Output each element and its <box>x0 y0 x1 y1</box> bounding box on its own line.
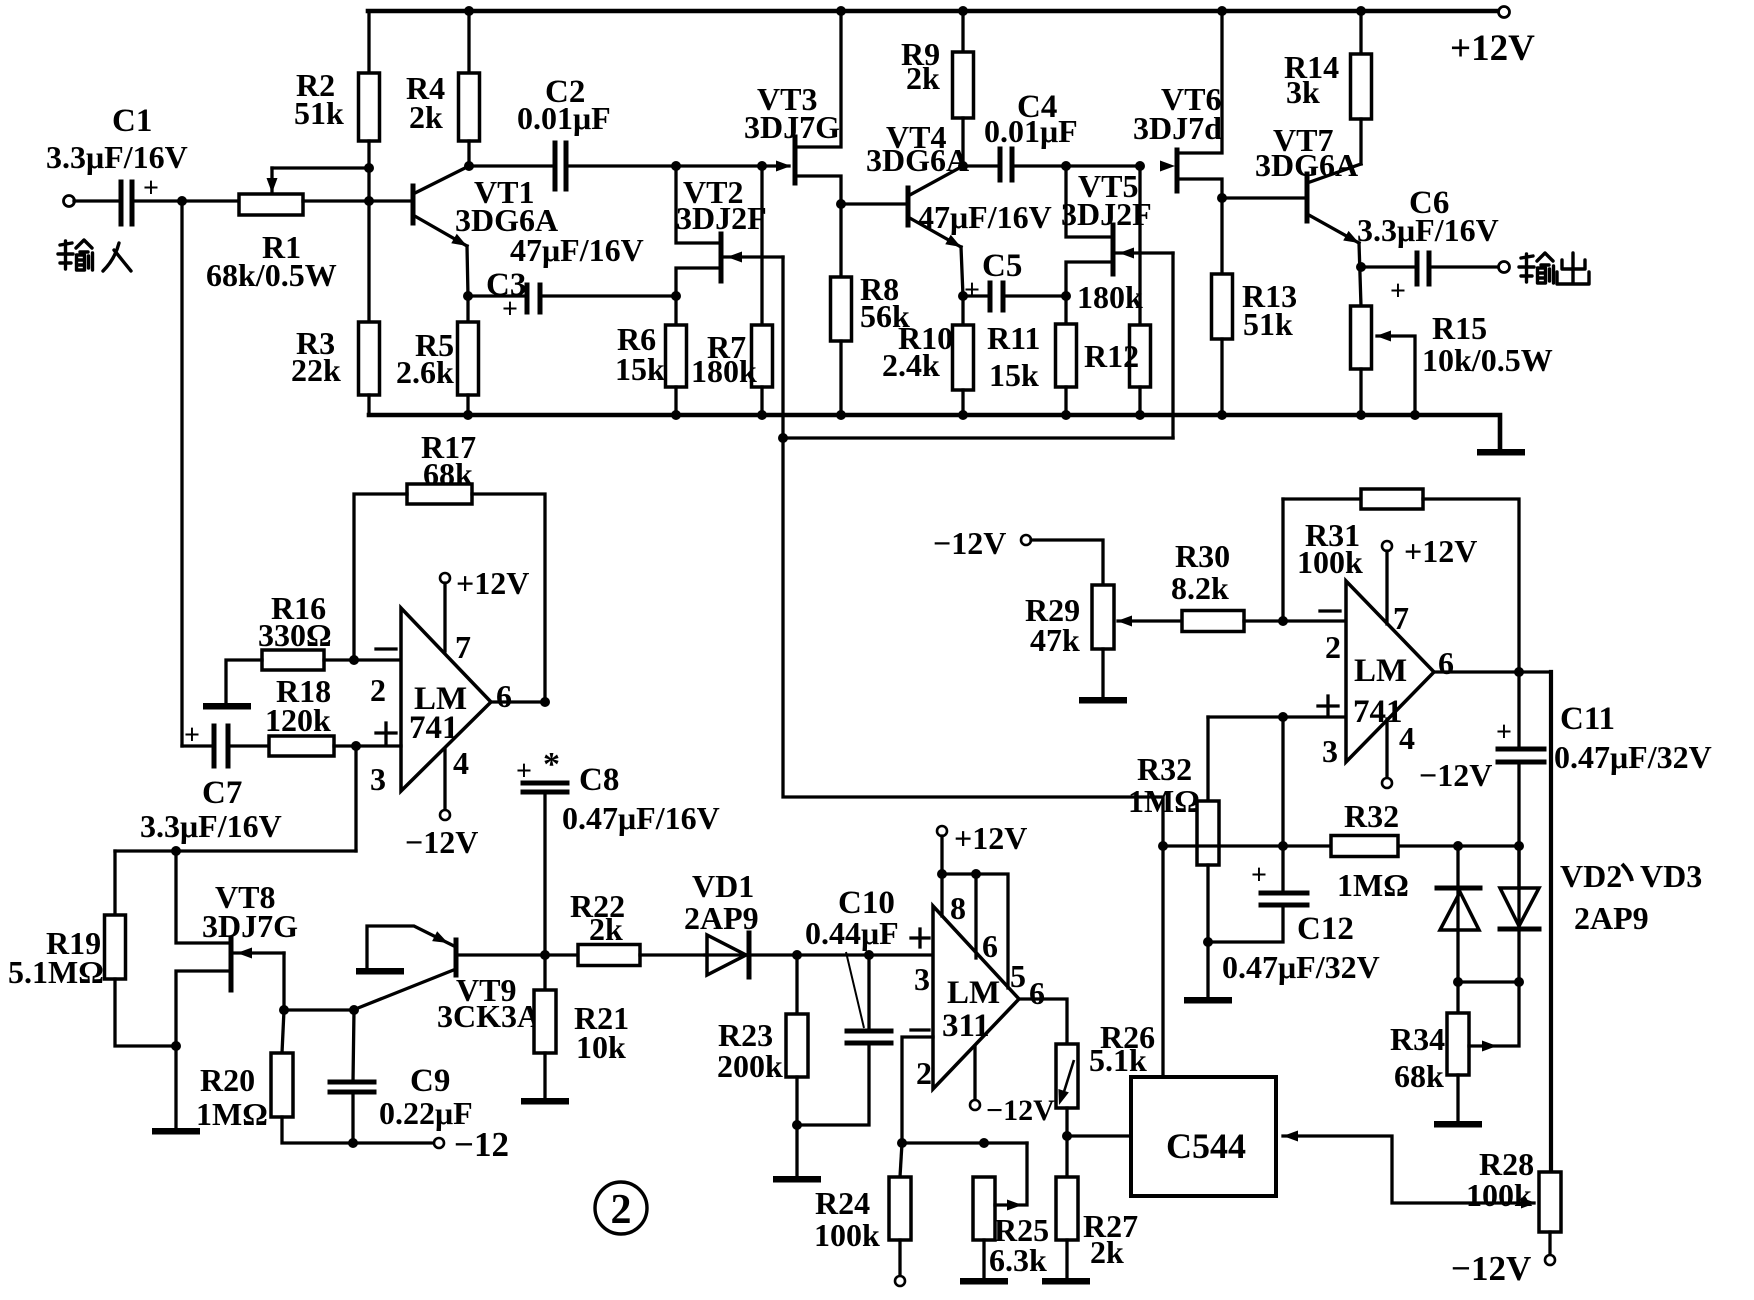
svg-text:2k: 2k <box>906 60 940 96</box>
svg-text:68k: 68k <box>423 456 473 492</box>
wire to VT7 base <box>1222 196 1307 199</box>
capacitor C9 <box>353 1010 354 1082</box>
svg-text:R15: R15 <box>1432 310 1487 346</box>
node VT8 gate/R20 <box>279 1005 289 1015</box>
input terminal <box>64 196 75 207</box>
node VD1/R23 <box>792 950 802 960</box>
pin2 wire <box>902 1037 933 1143</box>
node VT6 source / VT7 base <box>1217 193 1227 203</box>
svg-text:+: + <box>184 720 200 751</box>
node emitter/C9 <box>349 1005 359 1015</box>
wire inv row R24/R25 <box>902 1141 1027 1144</box>
svg-text:2k: 2k <box>409 99 443 135</box>
svg-text:4: 4 <box>1399 720 1415 756</box>
wire feedback to second stage <box>783 438 1163 1077</box>
resistor R23 <box>795 955 798 1014</box>
resistor R17 <box>407 484 472 504</box>
svg-text:6.3k: 6.3k <box>989 1242 1047 1278</box>
pin8 wire <box>940 836 943 916</box>
svg-text:C7: C7 <box>202 775 242 811</box>
svg-text:+12V: +12V <box>1404 533 1477 569</box>
svg-text:R20: R20 <box>200 1062 255 1098</box>
potentiometer R1 <box>239 194 303 215</box>
node base/divider <box>364 196 374 206</box>
JFET VT2 <box>719 234 724 281</box>
svg-text:+12V: +12V <box>1450 28 1535 69</box>
svg-text:3CK3A: 3CK3A <box>437 998 540 1034</box>
pin4 -12V U2 <box>1385 719 1388 778</box>
resistor R27 <box>1065 1136 1068 1177</box>
resistor R32 (input) <box>1197 801 1219 865</box>
svg-text:LM: LM <box>947 975 1000 1011</box>
diode VD3 <box>1517 846 1520 982</box>
ground VT8 source <box>152 1128 200 1135</box>
wire to VT4 base <box>841 202 908 205</box>
resistor R20 <box>282 1010 284 1053</box>
capacitor C6 <box>1361 265 1414 268</box>
resistor R2 <box>367 11 370 73</box>
node R16/R17 <box>349 655 359 665</box>
resistor R3 <box>359 322 380 395</box>
svg-text:51k: 51k <box>294 95 344 131</box>
svg-text:+: + <box>1251 860 1267 891</box>
svg-text:3: 3 <box>914 961 930 997</box>
svg-text:3DJ2F: 3DJ2F <box>676 200 767 236</box>
node bottom bus R5 <box>463 410 473 420</box>
svg-text:−12V: −12V <box>986 1094 1055 1127</box>
node C4 wire / R12 <box>1135 161 1145 171</box>
svg-text:R11: R11 <box>987 320 1040 356</box>
svg-text:100k: 100k <box>1297 544 1363 580</box>
svg-text:15k: 15k <box>615 351 665 387</box>
node bottom bus R12 <box>1135 410 1145 420</box>
wire VT2 gate down <box>781 257 784 438</box>
svg-text:741: 741 <box>409 710 459 746</box>
resistor R8 <box>831 277 852 341</box>
svg-text:22k: 22k <box>291 352 341 388</box>
svg-text:VD3: VD3 <box>1640 858 1702 894</box>
svg-text:3DJ7G: 3DJ7G <box>744 109 840 145</box>
wire input to C1 <box>74 199 119 202</box>
svg-text:180k: 180k <box>1077 279 1143 315</box>
svg-text:+12V: +12V <box>954 820 1027 856</box>
svg-text:3.3μF/16V: 3.3μF/16V <box>46 139 188 175</box>
svg-text:3DJ7d: 3DJ7d <box>1133 110 1222 146</box>
node C4 wire / VT5 drain <box>1061 161 1071 171</box>
wire VT5 gate feedback down <box>1171 253 1174 438</box>
resistor R16 <box>262 650 324 670</box>
wire R16 to pin2 <box>324 658 401 661</box>
svg-text:6: 6 <box>1438 645 1454 681</box>
+12V supply bus <box>368 9 1497 14</box>
resistor R13 <box>1212 274 1233 339</box>
svg-text:47μF/16V: 47μF/16V <box>510 232 644 268</box>
-12V terminal R29 <box>1021 535 1031 545</box>
figure number 2 <box>595 1182 647 1234</box>
node R26/R27/C544 <box>1062 1131 1072 1141</box>
svg-text:3.3μF/16V: 3.3μF/16V <box>1357 212 1499 248</box>
resistor R21 <box>543 955 546 990</box>
pin7 +12V U2 <box>1382 541 1392 551</box>
transistor VT7 <box>1305 174 1310 221</box>
svg-text:+: + <box>1496 717 1512 748</box>
ground VT9 collector <box>356 968 404 975</box>
capacitor C10 <box>867 955 870 1031</box>
svg-text:10k: 10k <box>576 1029 626 1065</box>
node bottom bus R8 <box>836 410 846 420</box>
svg-text:3DJ7G: 3DJ7G <box>202 908 298 944</box>
resistor R14 <box>1359 11 1362 54</box>
node bias row <box>171 846 181 856</box>
svg-text:R34: R34 <box>1390 1021 1445 1057</box>
+12V terminal LM311 <box>937 826 947 836</box>
node input line <box>177 196 187 206</box>
svg-text:120k: 120k <box>265 702 331 738</box>
capacitor C3 <box>468 294 525 297</box>
comparator U3 LM311 <box>933 906 1019 1089</box>
svg-text:C1: C1 <box>112 103 152 139</box>
svg-text:1MΩ: 1MΩ <box>1128 783 1200 819</box>
pin4 -12V <box>973 1046 976 1100</box>
ground R16 <box>203 703 251 710</box>
capacitor C1 <box>119 182 124 224</box>
svg-text:2: 2 <box>611 1187 632 1233</box>
wire C544 right to R28 wiper <box>1283 1136 1534 1203</box>
node bottom bus R10 <box>958 410 968 420</box>
svg-text:330Ω: 330Ω <box>258 617 332 653</box>
svg-text:2k: 2k <box>1090 1234 1124 1270</box>
node C10 tap <box>864 950 874 960</box>
capacitor C7 <box>182 744 212 747</box>
svg-text:C11: C11 <box>1560 701 1615 737</box>
svg-text:2.6k: 2.6k <box>396 354 454 390</box>
pin6 output wire U2 <box>1434 670 1551 673</box>
node VT3 source / VT4 base <box>836 199 846 209</box>
resistor R7 <box>760 166 763 325</box>
svg-text:100k: 100k <box>1466 1177 1532 1213</box>
capacitor C5 <box>963 294 988 297</box>
wire to LM311 pin3 <box>797 953 931 956</box>
svg-text:3: 3 <box>1322 733 1338 769</box>
输入 label <box>58 240 93 270</box>
svg-text:5.1MΩ: 5.1MΩ <box>8 954 104 990</box>
wire pin3 down to C12 <box>1281 717 1284 893</box>
transistor VT4 <box>906 188 911 225</box>
wire C2 to VT3 gate <box>568 164 789 167</box>
svg-text:1MΩ: 1MΩ <box>1337 867 1409 903</box>
svg-text:3: 3 <box>370 761 386 797</box>
transistor VT1 <box>411 186 416 223</box>
svg-text:−12V: −12V <box>1419 757 1492 793</box>
node C8/R21/R22/VT9 base <box>540 950 550 960</box>
svg-text:51k: 51k <box>1243 306 1293 342</box>
svg-text:5.1k: 5.1k <box>1089 1042 1147 1078</box>
capacitor C12 <box>1261 891 1307 896</box>
node R19/source line <box>171 1041 181 1051</box>
wire pin3 down <box>354 746 357 851</box>
resistor R22 <box>545 953 578 956</box>
node VT7 emitter / C6 <box>1356 262 1366 272</box>
svg-text:8.2k: 8.2k <box>1171 570 1229 606</box>
op-amp U1 LM741 <box>401 608 491 791</box>
resistor R6 <box>674 296 677 325</box>
JFET VT5 <box>1111 225 1116 274</box>
wire feedback horizontal <box>783 436 1173 439</box>
svg-text:8: 8 <box>950 890 966 926</box>
block C544 <box>1131 1077 1276 1196</box>
node pin2/R31 <box>1278 616 1288 626</box>
svg-text:6: 6 <box>1029 975 1045 1011</box>
svg-text:+12V: +12V <box>456 565 529 601</box>
svg-text:VD1: VD1 <box>692 868 754 904</box>
svg-text:R32: R32 <box>1344 798 1399 834</box>
wire R32 feedback row <box>1163 844 1331 847</box>
svg-text:C8: C8 <box>579 762 619 798</box>
svg-text:6: 6 <box>496 678 512 714</box>
capacitor C2 <box>553 143 558 189</box>
svg-text:741: 741 <box>1353 694 1403 730</box>
svg-text:2AP9: 2AP9 <box>1574 900 1649 936</box>
op-amp U2 LM741 <box>1346 581 1434 762</box>
svg-text:180k: 180k <box>691 353 757 389</box>
svg-text:0.47μF/32V: 0.47μF/32V <box>1554 739 1712 775</box>
svg-text:2k: 2k <box>589 911 623 947</box>
svg-text:0.47μF/32V: 0.47μF/32V <box>1222 949 1380 985</box>
svg-text:C12: C12 <box>1297 911 1354 947</box>
node bottom bus R15 wiper <box>1410 410 1420 420</box>
svg-text:+: + <box>1390 276 1406 307</box>
resistor R4 <box>467 11 470 73</box>
svg-text:LM: LM <box>1354 653 1407 689</box>
resistor R25 <box>973 1177 995 1240</box>
svg-text:VD2: VD2 <box>1560 858 1622 894</box>
ground main bus <box>369 415 1500 449</box>
svg-text:C5: C5 <box>982 248 1022 284</box>
resistor R9 <box>961 11 964 52</box>
node C9/R20 row <box>348 1138 358 1148</box>
svg-text:15k: 15k <box>989 357 1039 393</box>
output pin6 wire <box>1019 999 1067 1044</box>
svg-text:200k: 200k <box>717 1048 783 1084</box>
node C2 wire / VT2 drain <box>671 161 681 171</box>
resistor R30 <box>1182 611 1244 632</box>
svg-text:3k: 3k <box>1286 74 1320 110</box>
JFET VT6 <box>1160 161 1175 172</box>
输出 label <box>1519 253 1554 283</box>
svg-text:0.47μF/16V: 0.47μF/16V <box>562 800 720 836</box>
svg-text:311: 311 <box>942 1008 990 1044</box>
potentiometer R34 <box>1456 982 1459 1013</box>
svg-text:C544: C544 <box>1166 1126 1246 1166</box>
node VT1 emitter/C3 <box>463 291 473 301</box>
node feedback/R32 row <box>1158 841 1168 851</box>
resistor R5 <box>466 296 469 322</box>
svg-text:1MΩ: 1MΩ <box>196 1096 268 1132</box>
+12V terminal <box>1499 7 1510 18</box>
JFET VT8 <box>229 938 234 990</box>
svg-text:*: * <box>543 746 560 783</box>
svg-text:3DJ2F: 3DJ2F <box>1061 196 1152 232</box>
wire C1 to R1 <box>134 199 239 202</box>
resistor R12 <box>1138 166 1141 325</box>
svg-text:5: 5 <box>1010 958 1026 994</box>
svg-text:7: 7 <box>455 629 471 665</box>
node VT4 emitter / C5 <box>958 291 968 301</box>
node bus/R9 <box>958 6 968 16</box>
svg-text:2.4k: 2.4k <box>882 347 940 383</box>
wire collector to C2 <box>469 164 553 167</box>
svg-text:R12: R12 <box>1084 338 1139 374</box>
svg-text:3.3μF/16V: 3.3μF/16V <box>140 808 282 844</box>
svg-text:+: + <box>964 275 980 306</box>
svg-text:2: 2 <box>916 1055 932 1091</box>
svg-text:R32: R32 <box>1137 751 1192 787</box>
node bus/R14 <box>1356 6 1366 16</box>
node pin8 row <box>937 869 947 879</box>
svg-text:6: 6 <box>982 928 998 964</box>
svg-text:68k/0.5W: 68k/0.5W <box>206 257 337 293</box>
svg-text:−12V: −12V <box>405 824 478 860</box>
svg-text:2: 2 <box>1325 629 1341 665</box>
node bottom bus R15 <box>1356 410 1366 420</box>
resistor R11 <box>1064 296 1067 324</box>
potentiometer R15 <box>1351 306 1372 369</box>
resistor R19 <box>113 851 116 915</box>
node bottom bus R7 <box>757 410 767 420</box>
svg-text:7: 7 <box>1393 600 1409 636</box>
node bus/VT3 drain <box>836 6 846 16</box>
svg-text:3DG6A: 3DG6A <box>1255 147 1358 183</box>
diode VD2 <box>1456 846 1459 982</box>
node C2 wire / R7 <box>757 161 767 171</box>
capacitor C8 <box>523 781 567 786</box>
pin3 wire U2 <box>1208 715 1344 718</box>
svg-text:−12: −12 <box>454 1125 509 1164</box>
pins 5,6 strobe wires <box>942 874 1008 988</box>
JFET VT3 <box>793 137 798 183</box>
svg-text:−12V: −12V <box>1451 1249 1531 1288</box>
wire R1 to VT1 base <box>303 199 413 202</box>
svg-text:−12V: −12V <box>933 525 1006 561</box>
pin4 -12V <box>443 749 446 810</box>
node pin3/R18 <box>351 741 361 751</box>
resistor R18 <box>230 744 269 747</box>
node bottom bus R13 <box>1217 410 1227 420</box>
svg-text:3DG6A: 3DG6A <box>866 142 969 178</box>
svg-text:C9: C9 <box>410 1063 450 1099</box>
resistor R26 <box>1056 1044 1078 1108</box>
svg-text:47μF/16V: 47μF/16V <box>918 199 1052 235</box>
transistor VT9 <box>454 940 459 975</box>
capacitor C11 <box>1498 747 1544 752</box>
svg-text:4: 4 <box>453 745 469 781</box>
node pin6 <box>540 697 550 707</box>
-12 terminal <box>434 1138 444 1148</box>
potentiometer R29 <box>1092 585 1114 649</box>
wire pin6 <box>491 700 545 703</box>
wire input node down to C7 <box>180 201 183 746</box>
pin7 +12V <box>440 573 450 583</box>
svg-text:0.01μF: 0.01μF <box>517 100 611 136</box>
svg-text:+: + <box>516 756 532 787</box>
svg-text:C3: C3 <box>486 267 526 303</box>
node bus/R4 <box>464 6 474 16</box>
wire gate node to emitter <box>284 1008 354 1011</box>
svg-text:68k: 68k <box>1394 1058 1444 1094</box>
svg-text:2AP9: 2AP9 <box>684 900 759 936</box>
node bottom bus R6 <box>671 410 681 420</box>
svg-text:0.01μF: 0.01μF <box>984 113 1078 149</box>
diode VD1 <box>705 953 797 956</box>
resistor R32 (feedback) <box>1331 836 1398 857</box>
node R2/wiper <box>364 163 374 173</box>
node C3/R6 <box>671 291 681 301</box>
wire VT8 gate down <box>282 953 285 1010</box>
resistor R31 <box>1281 499 1284 621</box>
node bus/VT6 drain <box>1217 6 1227 16</box>
node feedback/VT2 gate <box>778 433 788 443</box>
svg-text:R30: R30 <box>1175 538 1230 574</box>
capacitor C4 <box>963 164 998 167</box>
resistor R10 <box>961 296 964 325</box>
node bottom bus R11 <box>1061 410 1071 420</box>
node R9/C4/collector <box>958 161 968 171</box>
svg-text:100k: 100k <box>814 1217 880 1253</box>
wire node to base line <box>367 168 370 322</box>
svg-text:10k/0.5W: 10k/0.5W <box>1422 342 1553 378</box>
svg-text:47k: 47k <box>1030 622 1080 658</box>
potentiometer R28 <box>1539 1172 1561 1232</box>
svg-text:2: 2 <box>370 672 386 708</box>
wire to C544 <box>1067 1134 1131 1137</box>
node VT1 collector <box>464 161 474 171</box>
wire bias row <box>115 849 356 852</box>
svg-text:R24: R24 <box>815 1185 870 1221</box>
svg-text:0.44μF: 0.44μF <box>805 915 899 951</box>
resistor R24 <box>900 1143 902 1177</box>
node C5/R11 <box>1061 291 1071 301</box>
